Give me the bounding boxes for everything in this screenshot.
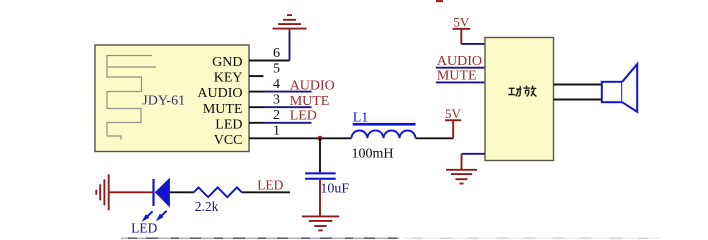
svg-text:AUDIO: AUDIO	[437, 54, 482, 69]
svg-text:MUTE: MUTE	[437, 69, 477, 84]
svg-text:LED: LED	[290, 108, 317, 123]
svg-text:JDY-61: JDY-61	[142, 94, 185, 109]
svg-text:10uF: 10uF	[320, 181, 349, 196]
svg-text:6: 6	[273, 46, 280, 61]
svg-text:5V: 5V	[453, 15, 470, 30]
svg-text:MUTE: MUTE	[203, 102, 243, 117]
svg-text:5V: 5V	[445, 106, 462, 121]
svg-text:100mH: 100mH	[352, 146, 394, 161]
svg-text:AUDIO: AUDIO	[197, 86, 242, 101]
svg-text:1: 1	[273, 124, 280, 139]
svg-text:AUDIO: AUDIO	[290, 78, 335, 93]
svg-text:4: 4	[273, 77, 280, 92]
svg-text:2.2k: 2.2k	[195, 199, 219, 214]
svg-text:VCC: VCC	[214, 133, 243, 148]
svg-text:LED: LED	[257, 177, 283, 192]
svg-text:KEY: KEY	[214, 71, 243, 86]
svg-text:MUTE: MUTE	[290, 94, 330, 109]
svg-text:3: 3	[273, 93, 280, 108]
svg-text:L1: L1	[353, 111, 369, 126]
svg-text:LED: LED	[215, 117, 242, 132]
svg-text:LED: LED	[131, 220, 157, 235]
svg-text:GND: GND	[212, 55, 242, 70]
svg-text:5: 5	[273, 61, 280, 76]
svg-text:2: 2	[273, 108, 280, 123]
